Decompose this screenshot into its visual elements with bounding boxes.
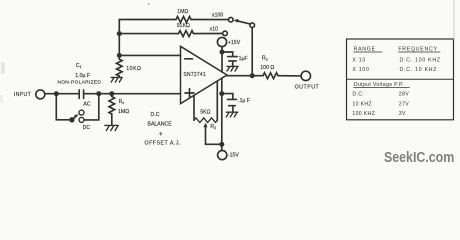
svg-text:C1: C1 [76,63,82,69]
svg-text:+: + [159,131,163,138]
svg-text:SeekIC.com: SeekIC.com [384,149,454,165]
svg-text:x100: x100 [212,13,223,19]
svg-text:D.C.: D.C. [352,92,364,98]
svg-text:5KΩ: 5KΩ [200,110,210,116]
svg-text:1MΩ: 1MΩ [118,109,129,115]
svg-text:Output Voltage P.P.: Output Voltage P.P. [354,82,404,88]
svg-text:1.0µ F: 1.0µ F [75,73,90,79]
svg-text:D.C. 100 KHZ: D.C. 100 KHZ [400,58,441,64]
svg-text:27V: 27V [399,101,409,107]
svg-text:FREQUENCY: FREQUENCY [398,46,437,52]
svg-text:SN72741: SN72741 [183,72,206,78]
svg-text:1μF: 1μF [239,56,248,62]
svg-text:10 KHZ: 10 KHZ [352,101,372,107]
svg-text:28V: 28V [399,92,409,98]
svg-text:RANGE: RANGE [354,46,376,52]
svg-text:NON-POLARIZED: NON-POLARIZED [57,80,101,86]
svg-text:1MΩ: 1MΩ [177,9,188,15]
svg-text:Rx: Rx [119,99,125,105]
svg-text:D.C. 10 KHZ: D.C. 10 KHZ [400,67,438,73]
svg-text:91KΩ: 91KΩ [177,23,190,29]
svg-text:R2: R2 [210,124,216,130]
svg-text:R3: R3 [262,55,268,61]
svg-text:X 10: X 10 [352,58,366,64]
svg-text:AC: AC [83,102,90,108]
svg-text:-15V: -15V [228,153,239,159]
svg-text:.1μ F: .1μ F [238,98,250,104]
svg-text:10KΩ: 10KΩ [126,66,141,72]
svg-text:INPUT: INPUT [14,92,32,98]
svg-text:OFFSET A.J.: OFFSET A.J. [145,140,182,146]
svg-text:D.C: D.C [151,112,160,118]
svg-text:100 Ω: 100 Ω [260,65,274,71]
svg-text:X 100: X 100 [352,67,369,73]
svg-text:100 KHZ: 100 KHZ [352,111,375,117]
svg-text:BALANCE: BALANCE [148,122,173,128]
svg-text:OUTPUT: OUTPUT [295,84,320,90]
svg-text:DC: DC [83,125,91,131]
svg-text:+15V: +15V [228,40,241,46]
svg-text:3V: 3V [399,111,406,117]
svg-text:x10: x10 [210,26,218,32]
